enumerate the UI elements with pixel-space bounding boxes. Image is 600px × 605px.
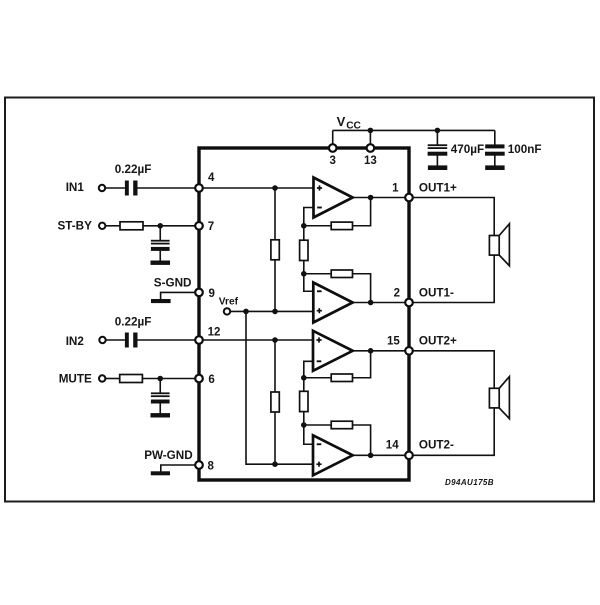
svg-text:1: 1 bbox=[392, 183, 399, 195]
resistor Rf2 bbox=[331, 270, 352, 278]
svg-text:470µF: 470µF bbox=[451, 143, 484, 156]
svg-text:0.22µF: 0.22µF bbox=[115, 316, 152, 329]
wire U1C - input link bbox=[304, 361, 313, 377]
pin 7 bbox=[195, 222, 203, 230]
wire ST-BY terminal to R1 bbox=[105, 225, 120, 227]
resistor R1 ST-BY bbox=[120, 222, 143, 230]
ground C2 bbox=[151, 261, 171, 265]
wire U1D output to pin 14 bbox=[353, 454, 409, 456]
node OUT1+ feedback tap bbox=[368, 195, 374, 201]
wire R1 to pin 7 bbox=[143, 225, 199, 227]
node U1B inverting bbox=[301, 271, 307, 277]
svg-text:12: 12 bbox=[208, 327, 221, 339]
node ST-BY/C2 bbox=[157, 223, 163, 229]
node IN1/Rin1 bbox=[272, 185, 278, 191]
wire C3 to pin 12 bbox=[138, 339, 200, 341]
svg-text:0.22µF: 0.22µF bbox=[115, 163, 152, 176]
wire input divider column 2 lower bbox=[274, 340, 276, 464]
resistor Rin2 bbox=[271, 392, 279, 412]
pin 3 bbox=[329, 144, 337, 152]
wire R2 to pin 6 bbox=[142, 378, 199, 380]
svg-text:9: 9 bbox=[209, 288, 215, 300]
wire OUT1 load loop bbox=[409, 198, 494, 303]
svg-text:13: 13 bbox=[364, 155, 377, 167]
svg-text:PW-GND: PW-GND bbox=[144, 449, 192, 462]
resistor Rg1 bbox=[300, 240, 308, 260]
terminal MUTE bbox=[99, 375, 105, 381]
op-amp U1D bbox=[313, 435, 353, 475]
svg-text:Vref: Vref bbox=[219, 297, 239, 308]
svg-text:OUT1+: OUT1+ bbox=[419, 182, 457, 195]
svg-text:100nF: 100nF bbox=[508, 143, 542, 156]
svg-text:OUT2+: OUT2+ bbox=[419, 335, 457, 348]
svg-text:CC: CC bbox=[346, 121, 361, 132]
node OUT2+ feedback tap bbox=[368, 348, 374, 354]
wire U1B output to pin 2 bbox=[353, 302, 409, 304]
pin 6 bbox=[195, 375, 203, 383]
wire U1D - input link bbox=[304, 425, 313, 444]
wire C4 bottom stem bbox=[159, 403, 161, 413]
terminal IN1 bbox=[99, 185, 105, 191]
wire pin 12 to op-amp U1C + input bbox=[199, 339, 313, 341]
ground S-GND bbox=[151, 299, 171, 303]
wire C2 top stem bbox=[159, 226, 161, 240]
wire U1C output to pin 15 bbox=[353, 350, 409, 352]
wire U1A output to pin 1 bbox=[353, 197, 409, 199]
wire C4 top stem bbox=[159, 379, 161, 393]
IC box U1 bbox=[199, 148, 409, 480]
svg-text:2: 2 bbox=[394, 287, 400, 299]
wire MUTE terminal to R2 bbox=[105, 378, 119, 380]
svg-text:IN1: IN1 bbox=[66, 181, 85, 194]
ground PW-GND bbox=[151, 471, 170, 475]
wire input divider column 1 upper bbox=[274, 188, 276, 311]
capacitor C2 ST-BY bbox=[151, 240, 170, 251]
pin 2 bbox=[405, 299, 413, 307]
svg-text:D94AU175B: D94AU175B bbox=[445, 478, 494, 487]
wire C2 bottom stem bbox=[159, 251, 161, 261]
wire U1A - input link bbox=[304, 208, 314, 226]
capacitor C6 100nF bbox=[485, 144, 505, 155]
wire Vref bus down to U1D + input bbox=[246, 311, 313, 464]
wire C1 to pin 4 bbox=[138, 187, 200, 189]
capacitor C3 0.22uF bbox=[125, 333, 138, 348]
pin 4 bbox=[195, 184, 203, 192]
op-amp U1A bbox=[314, 178, 353, 218]
pin 14 bbox=[405, 452, 413, 460]
svg-text:15: 15 bbox=[387, 336, 400, 348]
wire gain resistor column upper bbox=[303, 226, 305, 274]
node OUT1- feedback tap bbox=[368, 300, 374, 306]
op-amp U1B bbox=[313, 283, 352, 323]
pin 8 bbox=[195, 461, 203, 469]
wire S-GND to pin 9 bbox=[161, 292, 199, 300]
capacitor C5 470uF bbox=[428, 144, 448, 155]
ground C6 bbox=[485, 165, 504, 170]
node U1C inverting bbox=[301, 375, 307, 381]
wire riser pin 3 bbox=[332, 130, 334, 148]
svg-text:8: 8 bbox=[208, 460, 215, 472]
border frame bbox=[5, 98, 594, 502]
resistor Rg2 bbox=[300, 391, 308, 411]
wire C6 stems bbox=[494, 130, 496, 165]
op-amp U1C bbox=[313, 331, 353, 371]
wire C5 stems bbox=[436, 130, 438, 165]
svg-text:7: 7 bbox=[208, 221, 214, 233]
terminal ST-BY bbox=[99, 223, 105, 229]
wire pin 4 to op-amp U1A + input bbox=[199, 187, 314, 189]
terminal Vref bbox=[224, 308, 230, 314]
svg-text:OUT2-: OUT2- bbox=[419, 438, 454, 451]
ground C5 bbox=[428, 165, 447, 170]
speaker LS1 bbox=[489, 224, 509, 266]
svg-text:6: 6 bbox=[208, 374, 214, 386]
terminal IN2 bbox=[99, 337, 105, 343]
wire OUT2 load loop bbox=[409, 351, 494, 456]
node OUT2- feedback tap bbox=[368, 453, 374, 459]
wire IN1 terminal to C1 bbox=[105, 187, 125, 189]
wire U1A feedback bbox=[304, 198, 371, 226]
pin 15 bbox=[405, 347, 413, 355]
wire U1C feedback bbox=[304, 351, 371, 378]
svg-text:ST-BY: ST-BY bbox=[58, 219, 93, 232]
resistor Rf4 bbox=[331, 421, 352, 429]
node U1D inverting bbox=[301, 422, 307, 428]
resistor Rf1 bbox=[331, 222, 352, 230]
wire U1B feedback bbox=[304, 274, 371, 303]
wire Vref to op-amp U1B + input bbox=[230, 310, 313, 312]
capacitor C1 0.22uF bbox=[125, 181, 138, 196]
node Vref bus left bbox=[243, 309, 249, 315]
svg-text:4: 4 bbox=[208, 172, 215, 184]
node VCC/C5 bbox=[435, 128, 441, 134]
node IN2/Rin2 bbox=[272, 337, 278, 343]
wire VCC rail bbox=[333, 129, 495, 131]
wire U1D feedback bbox=[304, 425, 371, 455]
svg-text:V: V bbox=[337, 114, 346, 129]
pin 1 bbox=[405, 194, 413, 202]
wire IN2 terminal to C3 bbox=[106, 339, 125, 341]
wire U1B - input link bbox=[304, 274, 314, 292]
wire PW-GND to pin 8 bbox=[161, 464, 199, 472]
wire gain resistor column lower bbox=[303, 378, 305, 425]
svg-text:3: 3 bbox=[329, 155, 335, 167]
node U1A inverting bbox=[301, 223, 307, 229]
capacitor C4 MUTE bbox=[151, 392, 170, 403]
speaker LS2 bbox=[489, 377, 509, 419]
svg-text:MUTE: MUTE bbox=[59, 373, 92, 386]
node Vref/Rin1 bbox=[272, 309, 278, 315]
svg-text:14: 14 bbox=[386, 439, 399, 451]
node Rin2/U1D+ bbox=[272, 461, 278, 467]
node MUTE/C4 bbox=[157, 376, 163, 382]
pin 13 bbox=[367, 144, 375, 152]
svg-text:IN2: IN2 bbox=[66, 335, 85, 348]
svg-text:OUT1-: OUT1- bbox=[419, 286, 454, 299]
resistor Rin1 bbox=[271, 240, 279, 260]
resistor Rf3 bbox=[331, 374, 352, 382]
pin 12 bbox=[195, 336, 203, 344]
pin 9 bbox=[195, 289, 203, 297]
node VCC/pin13 bbox=[368, 128, 374, 134]
ground C4 bbox=[151, 413, 171, 417]
wire riser pin 13 bbox=[369, 130, 371, 148]
resistor R2 MUTE bbox=[120, 375, 143, 383]
svg-text:S-GND: S-GND bbox=[154, 276, 192, 289]
